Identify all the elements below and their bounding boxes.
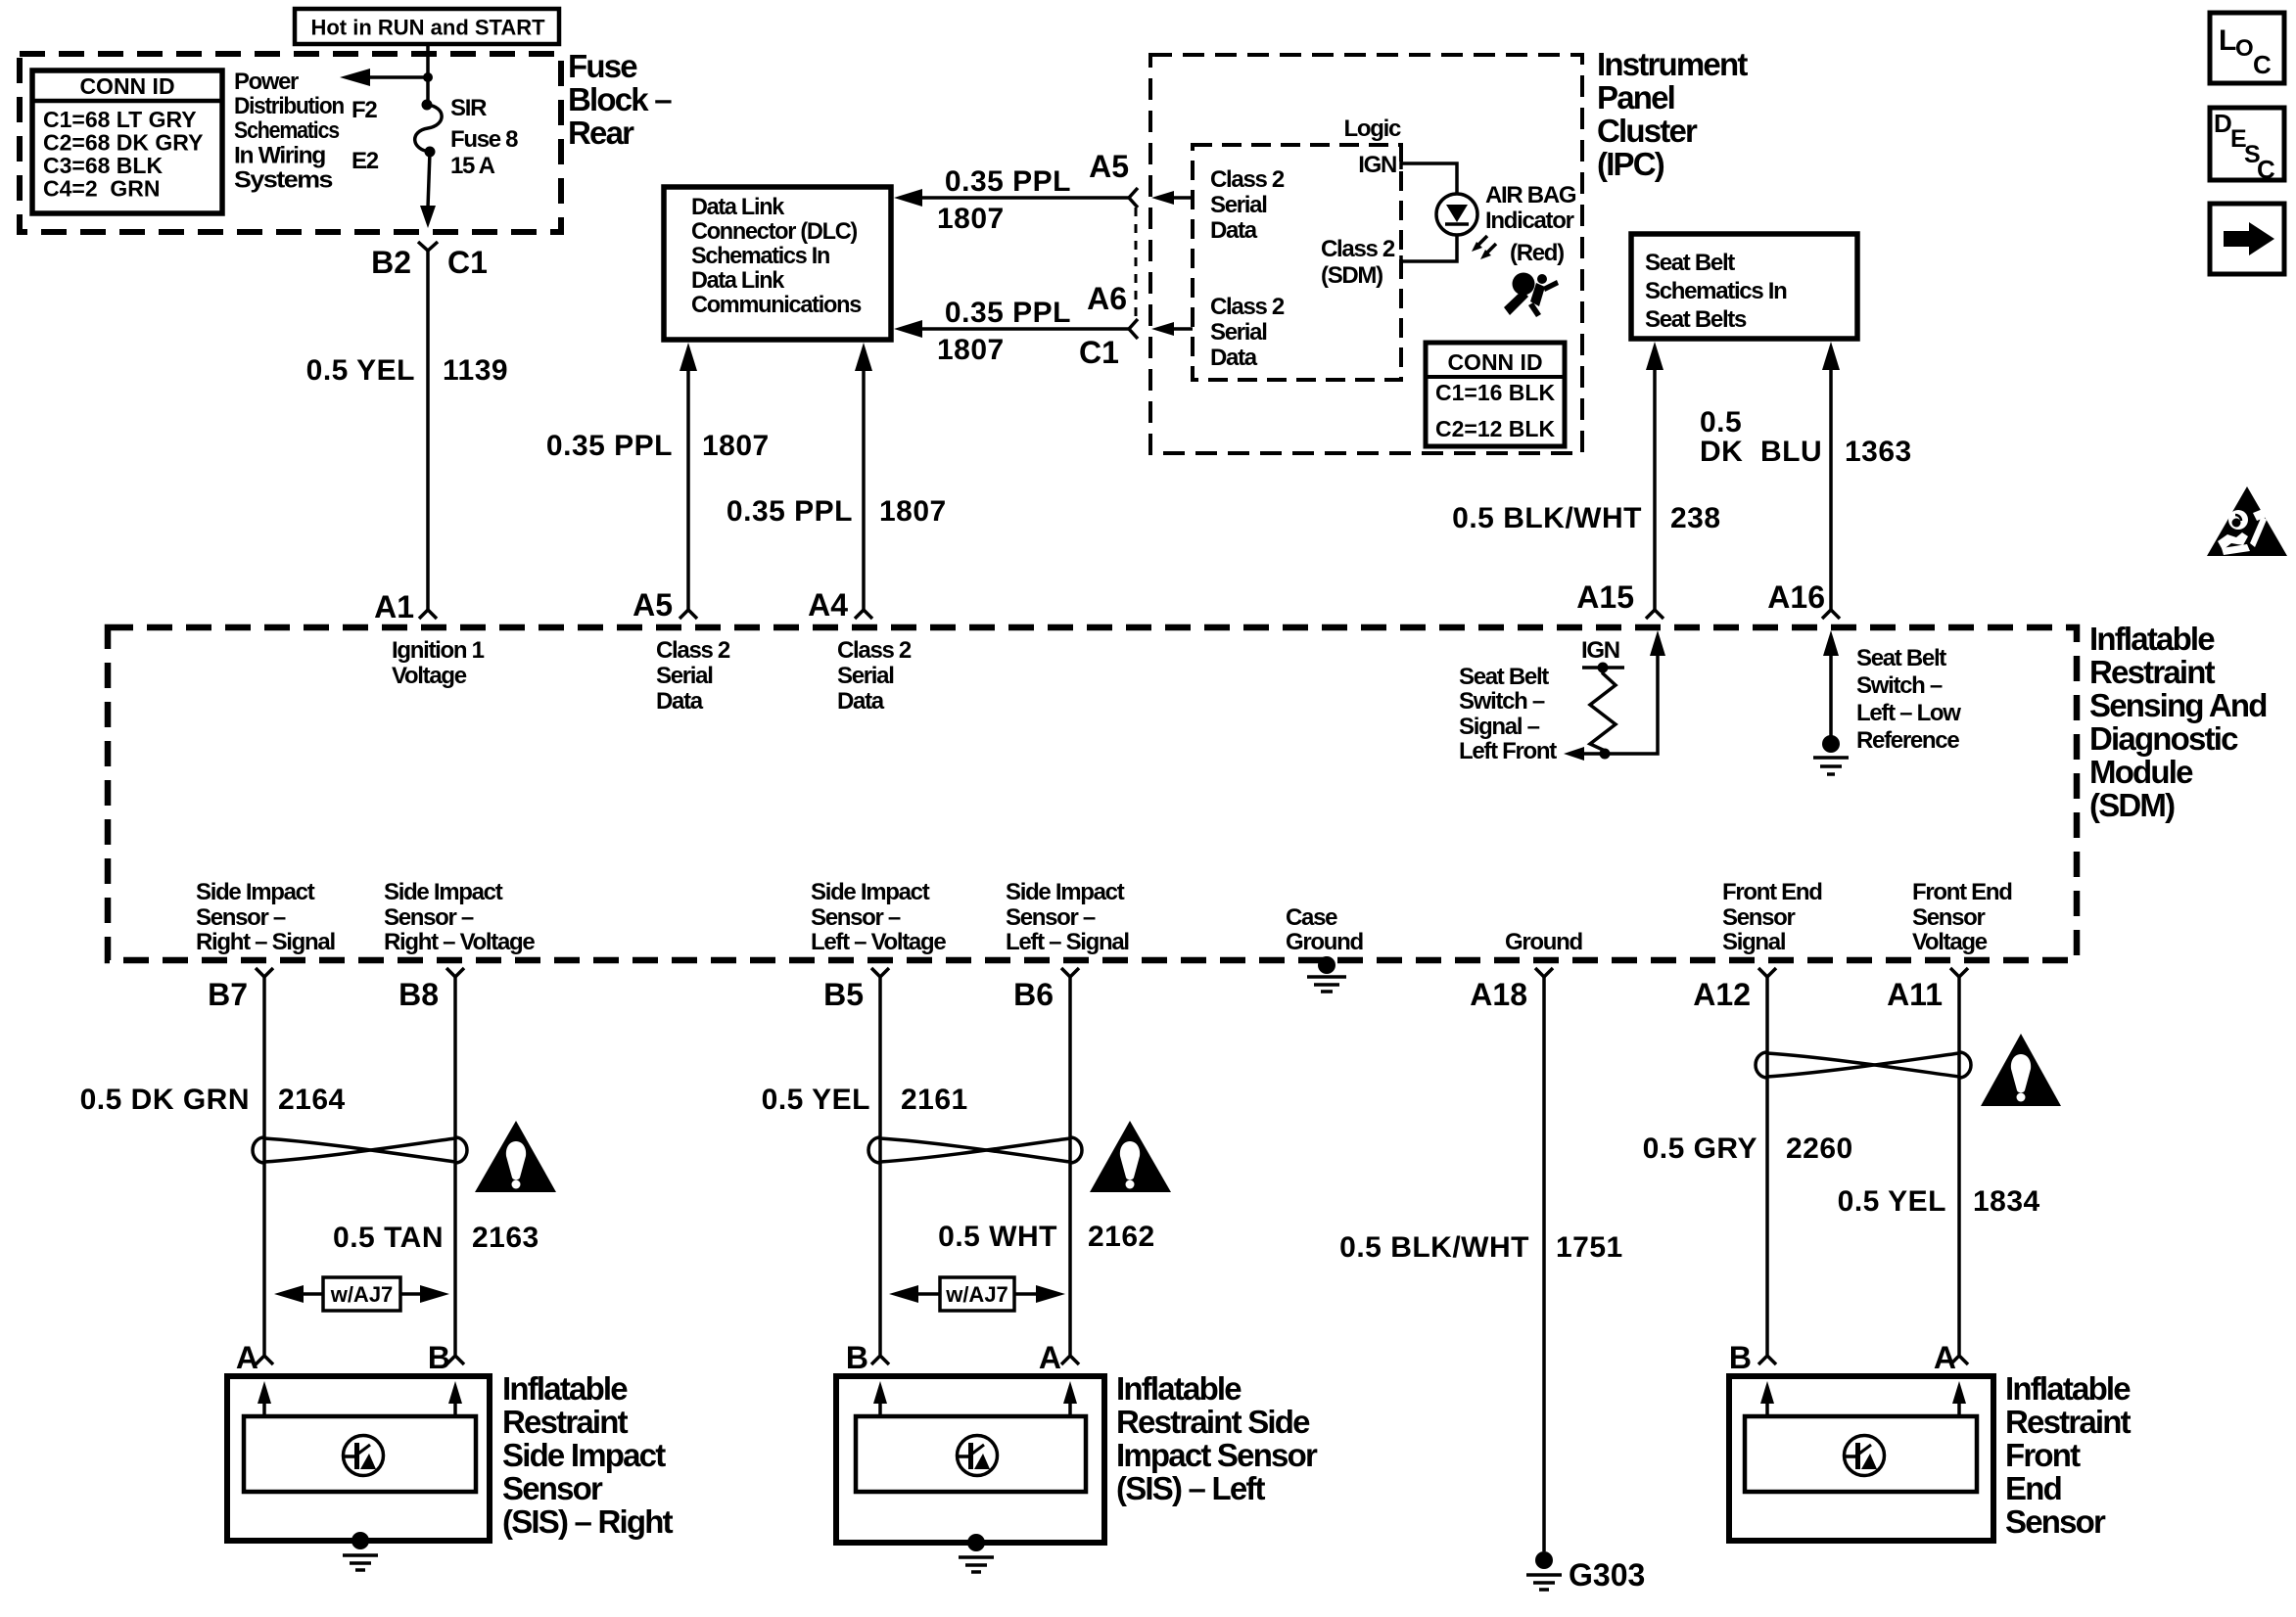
wire to seat belt switch (arrow left): [1581, 752, 1605, 756]
svg-text:Left – Low: Left – Low: [1856, 700, 1961, 726]
svg-text:CONN ID: CONN ID: [1447, 349, 1542, 375]
junction node: [423, 72, 433, 82]
svg-text:Restraint: Restraint: [502, 1404, 629, 1440]
svg-text:G303: G303: [1569, 1557, 1645, 1593]
svg-text:Data Link: Data Link: [691, 194, 785, 220]
svg-text:A11: A11: [1887, 977, 1943, 1012]
pin A16 wire to internal ground: [1823, 630, 1839, 656]
svg-text:0.5 YEL: 0.5 YEL: [1838, 1185, 1946, 1218]
svg-text:(SIS) – Left: (SIS) – Left: [1116, 1470, 1266, 1506]
wire 0.5 BLK/WHT 238 from SDM pin A15 to seat belt schematics: [1646, 342, 1663, 370]
LOC navigation icon: [2210, 13, 2284, 83]
svg-text:Impact Sensor: Impact Sensor: [1116, 1437, 1318, 1473]
Inflatable Restraint Side Impact Sensor (SIS) - Left: [836, 1376, 1104, 1543]
svg-text:238: 238: [1670, 502, 1721, 534]
svg-text:0.5 BLK/WHT: 0.5 BLK/WHT: [1452, 502, 1642, 534]
svg-text:Class 2: Class 2: [656, 637, 730, 664]
svg-text:IGN: IGN: [1358, 152, 1396, 178]
svg-text:Front End: Front End: [1912, 879, 2012, 905]
svg-text:Cluster: Cluster: [1597, 113, 1698, 149]
svg-text:A: A: [1934, 1340, 1956, 1375]
svg-text:Serial: Serial: [837, 663, 894, 689]
svg-text:C3=68 BLK: C3=68 BLK: [43, 153, 163, 178]
svg-text:0.5: 0.5: [1700, 406, 1742, 439]
connector symbol at SDM pin A18: [1535, 968, 1553, 977]
svg-text:Side Impact: Side Impact: [384, 879, 503, 905]
wire from fuse to connector C1 pin B2: [428, 152, 430, 208]
svg-text:0.5 GRY: 0.5 GRY: [1643, 1132, 1757, 1165]
svg-text:Inflatable: Inflatable: [2089, 621, 2215, 657]
svg-text:Front End: Front End: [1722, 879, 1822, 905]
svg-text:(Red): (Red): [1510, 240, 1564, 266]
svg-text:B5: B5: [823, 977, 864, 1012]
svg-text:Seat Belts: Seat Belts: [1645, 306, 1747, 333]
fuse SIR Fuse 8 15 A: [422, 100, 433, 111]
Instrument Panel Cluster dashed outline: [1150, 55, 1582, 453]
svg-text:Switch –: Switch –: [1856, 672, 1943, 699]
svg-text:Schematics In: Schematics In: [1645, 278, 1787, 304]
svg-text:Fuse 8: Fuse 8: [450, 126, 518, 153]
connector symbols at front end sensor: [1758, 1356, 1776, 1364]
wire 0.35 PPL 1807 from IPC pin A5 to DLC (upper): [915, 196, 1129, 200]
svg-text:1807: 1807: [937, 203, 1005, 235]
resistor (seat belt switch pull-up): [1590, 668, 1616, 754]
svg-text:Left – Signal: Left – Signal: [1006, 929, 1129, 955]
svg-text:Sensor –: Sensor –: [1006, 904, 1096, 931]
svg-text:w/AJ7: w/AJ7: [945, 1282, 1008, 1307]
svg-text:B2: B2: [371, 245, 411, 280]
connector symbol at SDM pin B6: [1061, 968, 1079, 977]
connector symbol at SDM pin A16: [1822, 610, 1840, 619]
svg-text:Sensor: Sensor: [2005, 1503, 2106, 1540]
svg-text:C4=2 GRN: C4=2 GRN: [43, 176, 161, 202]
svg-text:Ground: Ground: [1286, 929, 1363, 955]
side air bag caution triangle: [2207, 486, 2287, 556]
svg-text:End: End: [2005, 1470, 2061, 1506]
svg-text:Restraint Side: Restraint Side: [1116, 1404, 1310, 1440]
svg-text:Data: Data: [1210, 345, 1258, 371]
svg-text:0.5 WHT: 0.5 WHT: [938, 1221, 1057, 1253]
connector C1 pin B2 symbol: [418, 242, 438, 251]
svg-text:1807: 1807: [702, 430, 770, 462]
wire 0.5 DK GRN 2164 (B7 to SIS right pin A): [262, 977, 266, 1355]
svg-text:Power: Power: [234, 69, 299, 95]
svg-text:Ignition 1: Ignition 1: [392, 637, 485, 664]
svg-text:Sensing And: Sensing And: [2089, 687, 2267, 723]
svg-text:Hot in RUN and START: Hot in RUN and START: [310, 16, 545, 40]
svg-text:Class 2: Class 2: [1210, 294, 1285, 320]
svg-text:B7: B7: [208, 977, 248, 1012]
svg-text:Sensor: Sensor: [502, 1470, 603, 1506]
svg-text:Right – Voltage: Right – Voltage: [384, 929, 535, 955]
svg-text:A6: A6: [1087, 281, 1127, 316]
svg-text:1834: 1834: [1973, 1185, 2040, 1218]
wire 0.5 GRY 2260 (A12 to front end sensor pin B): [1765, 977, 1769, 1355]
caution triangle (left SIS): [1090, 1121, 1171, 1192]
svg-text:Seat Belt: Seat Belt: [1645, 250, 1735, 276]
ground G303: [1535, 1551, 1553, 1569]
svg-text:15 A: 15 A: [450, 153, 495, 179]
svg-text:C: C: [2253, 50, 2272, 79]
svg-text:Serial: Serial: [656, 663, 713, 689]
Inflatable Restraint Side Impact Sensor (SIS) - Right: [227, 1376, 490, 1541]
svg-text:Sensor –: Sensor –: [196, 904, 286, 931]
svg-text:2260: 2260: [1786, 1132, 1853, 1165]
SDM module dashed outline: [108, 627, 2077, 960]
Inflatable Restraint Front End Sensor: [1729, 1376, 1993, 1541]
svg-text:0.5 DK GRN: 0.5 DK GRN: [80, 1084, 250, 1116]
air bag pictograph: [1504, 273, 1559, 318]
svg-text:Side Impact: Side Impact: [1006, 879, 1125, 905]
svg-text:C1=16 BLK: C1=16 BLK: [1435, 380, 1555, 405]
svg-text:Side Impact: Side Impact: [196, 879, 315, 905]
svg-text:A4: A4: [808, 587, 848, 623]
connector symbol at SDM pin A12: [1758, 968, 1776, 977]
wire 0.35 PPL 1807 from SDM pin A5 up to DLC: [679, 343, 697, 371]
svg-text:Reference: Reference: [1856, 727, 1959, 754]
svg-text:Fuse: Fuse: [568, 48, 637, 84]
svg-text:Left – Voltage: Left – Voltage: [811, 929, 946, 955]
svg-text:0.35 PPL: 0.35 PPL: [945, 165, 1071, 198]
svg-text:2164: 2164: [278, 1084, 346, 1116]
svg-text:Signal –: Signal –: [1459, 714, 1540, 740]
svg-text:A16: A16: [1767, 579, 1825, 615]
svg-text:B: B: [1729, 1340, 1752, 1375]
svg-text:C: C: [2257, 155, 2275, 184]
svg-text:Module: Module: [2089, 754, 2193, 790]
svg-text:A12: A12: [1693, 977, 1751, 1012]
svg-text:In Wiring: In Wiring: [234, 143, 326, 169]
internal ground (seat belt switch low reference): [1822, 735, 1840, 753]
svg-text:0.35 PPL: 0.35 PPL: [726, 495, 853, 528]
connector symbol at SDM pin A1: [419, 610, 437, 619]
svg-text:0.5 YEL: 0.5 YEL: [306, 354, 415, 387]
svg-text:1807: 1807: [937, 334, 1005, 366]
svg-text:Inflatable: Inflatable: [2005, 1370, 2131, 1407]
svg-text:2162: 2162: [1088, 1221, 1155, 1253]
svg-text:F2: F2: [351, 97, 377, 123]
junction node: [1600, 749, 1611, 760]
CONN ID table (fuse block): [32, 70, 222, 213]
connector symbol at IPC pin A5: [1129, 188, 1138, 208]
svg-text:Indicator: Indicator: [1485, 208, 1574, 234]
connector symbols at left SIS: [871, 1356, 889, 1364]
sensor case ground (left SIS): [967, 1534, 985, 1551]
sensor element symbol (left SIS): [958, 1436, 998, 1476]
svg-text:A: A: [1039, 1340, 1061, 1375]
svg-text:Communications: Communications: [691, 292, 862, 318]
svg-text:A5: A5: [633, 587, 673, 623]
sensor element symbol (front end sensor): [1845, 1436, 1885, 1476]
svg-text:Systems: Systems: [234, 167, 333, 194]
wire IGN to AIR BAG indicator: [1401, 163, 1457, 194]
svg-text:Diagnostic: Diagnostic: [2089, 720, 2238, 757]
twisted pair symbol (front end sensor harness): [1756, 1052, 1971, 1078]
wire 0.35 PPL 1807 from SDM pin A4 up to DLC: [855, 343, 872, 371]
branch wire to power distribution (arrow left): [369, 75, 428, 79]
AIR BAG Indicator LED lamp: [1436, 194, 1477, 235]
twisted pair symbol (left SIS harness): [868, 1137, 1082, 1163]
svg-text:0.5 BLK/WHT: 0.5 BLK/WHT: [1339, 1231, 1529, 1264]
svg-text:0.35 PPL: 0.35 PPL: [945, 297, 1071, 329]
svg-text:E2: E2: [351, 148, 379, 174]
svg-text:Seat Belt: Seat Belt: [1856, 645, 1946, 671]
svg-text:C2=12 BLK: C2=12 BLK: [1435, 416, 1555, 441]
svg-text:1139: 1139: [443, 354, 508, 387]
svg-text:Panel: Panel: [1597, 79, 1674, 115]
svg-text:Signal: Signal: [1722, 929, 1785, 955]
svg-text:DK BLU: DK BLU: [1700, 436, 1822, 468]
svg-text:Side Impact: Side Impact: [502, 1437, 666, 1473]
svg-text:Sensor: Sensor: [1722, 904, 1796, 931]
svg-text:A5: A5: [1089, 149, 1129, 184]
svg-text:w/AJ7: w/AJ7: [330, 1282, 394, 1307]
svg-text:0.35 PPL: 0.35 PPL: [546, 430, 673, 462]
svg-text:A18: A18: [1470, 977, 1527, 1012]
svg-text:0.5 YEL: 0.5 YEL: [762, 1084, 870, 1116]
svg-text:A: A: [236, 1340, 258, 1375]
svg-text:B: B: [428, 1340, 450, 1375]
svg-text:Left Front: Left Front: [1459, 738, 1557, 764]
svg-text:Data Link: Data Link: [691, 267, 785, 294]
svg-text:Connector (DLC): Connector (DLC): [691, 218, 857, 245]
svg-text:0.5 TAN: 0.5 TAN: [333, 1222, 444, 1254]
svg-text:Instrument: Instrument: [1597, 46, 1748, 82]
svg-text:Block –: Block –: [568, 81, 672, 117]
svg-text:(SDM): (SDM): [2089, 787, 2175, 823]
svg-text:Switch –: Switch –: [1459, 688, 1545, 715]
IPC logic block dashed outline: [1193, 145, 1401, 380]
splice marker w/AJ7 (left SIS): [940, 1277, 1014, 1311]
svg-text:Restraint: Restraint: [2005, 1404, 2132, 1440]
caution triangle (front end sensor): [1981, 1034, 2061, 1106]
svg-text:C1: C1: [1079, 335, 1119, 370]
svg-text:C2=68 DK GRY: C2=68 DK GRY: [43, 130, 203, 156]
svg-text:Class 2: Class 2: [1321, 236, 1395, 262]
svg-text:(IPC): (IPC): [1597, 146, 1664, 182]
svg-text:A15: A15: [1576, 579, 1634, 615]
svg-text:Case: Case: [1286, 904, 1337, 931]
connector symbol at SDM pin B5: [871, 968, 889, 977]
connector symbol at SDM pin A4: [855, 610, 872, 619]
CONN ID table (IPC): [1426, 343, 1565, 446]
svg-text:Logic: Logic: [1344, 115, 1401, 142]
svg-text:SIR: SIR: [450, 95, 487, 121]
svg-text:1807: 1807: [879, 495, 947, 528]
connector symbol at SDM pin B7: [256, 968, 273, 977]
wire 0.5 YEL 1139 down to SDM pin A1: [426, 251, 430, 610]
svg-text:A1: A1: [374, 589, 414, 624]
DESC navigation icon: [2210, 108, 2284, 180]
svg-text:Front: Front: [2005, 1437, 2081, 1473]
svg-text:IGN: IGN: [1581, 637, 1619, 664]
wire 0.5 TAN 2163 (B8 to SIS right pin B): [453, 977, 457, 1355]
svg-text:AIR BAG: AIR BAG: [1485, 182, 1576, 208]
wire from hot feed down to fuse: [426, 44, 430, 105]
svg-text:(SDM): (SDM): [1321, 262, 1382, 289]
svg-text:Right – Signal: Right – Signal: [196, 929, 335, 955]
wire from logic block to DLC (upper, arrow left): [1151, 191, 1174, 205]
svg-text:Sensor –: Sensor –: [384, 904, 474, 931]
svg-text:Restraint: Restraint: [2089, 654, 2216, 690]
wire 0.5 BLK/WHT 1751 (A18 to G303): [1542, 977, 1546, 1551]
svg-text:Data: Data: [656, 688, 704, 715]
svg-text:Seat Belt: Seat Belt: [1459, 664, 1549, 690]
forward navigation icon: [2210, 204, 2284, 274]
wire 0.5 YEL 1834 (A11 to front end sensor pin A): [1957, 977, 1961, 1355]
svg-text:Serial: Serial: [1210, 192, 1267, 218]
svg-text:Data: Data: [837, 688, 885, 715]
connector symbols at right SIS: [256, 1356, 273, 1364]
wire 0.5 DK BLU 1363 from SDM pin A16 to seat belt schematics: [1822, 342, 1840, 370]
svg-text:B6: B6: [1013, 977, 1054, 1012]
svg-text:C1: C1: [447, 245, 488, 280]
fuse block dashed outline (Fuse Block - Rear): [20, 54, 561, 232]
LED light emission arrows: [1476, 236, 1487, 248]
svg-text:Inflatable: Inflatable: [1116, 1370, 1242, 1407]
svg-text:Distribution: Distribution: [234, 93, 345, 119]
Seat Belt Schematics reference box: [1631, 234, 1857, 339]
svg-text:Ground: Ground: [1505, 929, 1582, 955]
svg-text:Voltage: Voltage: [392, 663, 467, 689]
svg-text:Class 2: Class 2: [1210, 166, 1285, 193]
wire 0.5 WHT 2162 (B6 to SIS left pin A): [1068, 977, 1072, 1355]
svg-text:L: L: [2219, 24, 2236, 57]
svg-text:D: D: [2214, 109, 2232, 138]
connector symbol at SDM pin B8: [446, 968, 464, 977]
svg-text:Serial: Serial: [1210, 319, 1267, 346]
splice marker w/AJ7 (right SIS): [323, 1277, 400, 1311]
svg-text:Rear: Rear: [568, 115, 634, 151]
svg-text:Sensor: Sensor: [1912, 904, 1986, 931]
wire from junction up to pin A15 (arrow up): [1605, 654, 1658, 754]
svg-text:Schematics In: Schematics In: [691, 243, 830, 269]
svg-text:Side Impact: Side Impact: [811, 879, 930, 905]
svg-text:O: O: [2235, 35, 2254, 62]
sensor element symbol (right SIS): [344, 1436, 384, 1476]
connector symbol at SDM pin A15: [1646, 610, 1663, 619]
svg-text:2163: 2163: [472, 1222, 539, 1254]
connector symbol at SDM pin A11: [1950, 968, 1968, 977]
power feed box "Hot in RUN and START": [295, 9, 559, 44]
wire from AIR BAG indicator to Class 2 (SDM) pin: [1401, 235, 1457, 261]
dashed connector link line between A5 and A6: [1135, 208, 1138, 321]
wire 0.5 YEL 2161 (B5 to SIS left pin B): [878, 977, 882, 1355]
wire from logic block to DLC (lower, arrow left): [1151, 322, 1174, 336]
svg-text:Class 2: Class 2: [837, 637, 912, 664]
svg-text:Inflatable: Inflatable: [502, 1370, 628, 1407]
caution triangle (right SIS): [475, 1121, 556, 1192]
svg-text:C1=68 LT GRY: C1=68 LT GRY: [43, 107, 197, 132]
wire 0.35 PPL 1807 from IPC pin A6 to DLC (lower): [915, 327, 1129, 331]
svg-text:2161: 2161: [901, 1084, 968, 1116]
connector symbol at SDM pin A5: [679, 610, 697, 619]
svg-text:Schematics: Schematics: [234, 117, 340, 144]
sensor case ground (right SIS): [351, 1532, 369, 1549]
svg-text:1363: 1363: [1845, 436, 1912, 468]
svg-text:1751: 1751: [1556, 1231, 1623, 1264]
svg-text:Voltage: Voltage: [1912, 929, 1988, 955]
svg-text:Sensor –: Sensor –: [811, 904, 901, 931]
svg-text:Data: Data: [1210, 217, 1258, 244]
svg-text:(SIS) – Right: (SIS) – Right: [502, 1503, 674, 1540]
connector symbol at IPC pin A6: [1129, 319, 1138, 339]
svg-text:B: B: [846, 1340, 868, 1375]
svg-text:CONN ID: CONN ID: [79, 73, 174, 99]
twisted pair symbol (right SIS harness): [253, 1137, 467, 1163]
Data Link Connector (DLC) reference box: [664, 187, 891, 340]
svg-text:B8: B8: [398, 977, 439, 1012]
